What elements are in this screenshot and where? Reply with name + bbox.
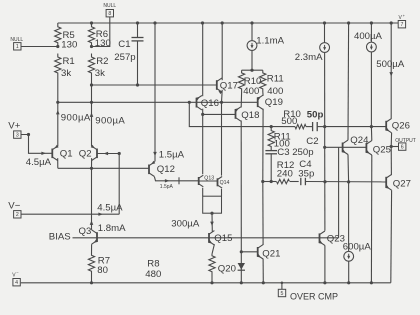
svg-text:1: 1 bbox=[16, 44, 19, 50]
arrow 1.5pA bbox=[160, 179, 174, 190]
pin 3 V+ input bbox=[8, 120, 52, 153]
capacitor C1 bbox=[114, 23, 143, 85]
current arrow 500uA bbox=[376, 59, 405, 77]
wire Q24 collector riser bbox=[347, 23, 350, 140]
wire Q2 emitter riser bbox=[91, 102, 93, 146]
svg-text:80: 80 bbox=[97, 265, 108, 276]
junction node C bbox=[270, 125, 273, 128]
resistor R5 bbox=[55, 23, 78, 50]
pin 5 OVER CMP bbox=[278, 283, 338, 302]
wire Q21 base bbox=[241, 251, 257, 253]
svg-text:480: 480 bbox=[145, 269, 161, 280]
transistor Q17 bbox=[217, 78, 238, 92]
junction Q16 collector bbox=[201, 113, 204, 116]
junction top rail R6 top bbox=[90, 21, 93, 24]
junction Q23 collector node bbox=[323, 180, 326, 183]
svg-text:50p: 50p bbox=[307, 109, 324, 120]
svg-text:130: 130 bbox=[95, 38, 111, 49]
resistor R6 bbox=[88, 23, 110, 49]
wire Q15 emitter to R8 bbox=[212, 244, 214, 254]
transistor Q15 bbox=[208, 231, 232, 245]
transistor Q23 bbox=[319, 231, 345, 245]
wire R1 to node A bbox=[57, 77, 59, 103]
wire BIAS base line bbox=[73, 237, 339, 239]
transistor Q26 bbox=[385, 118, 410, 132]
wire Q19 collector down bbox=[262, 109, 264, 182]
current source 400uA bbox=[354, 23, 383, 127]
svg-text:R8: R8 bbox=[147, 258, 159, 269]
wire R8 to rail bbox=[211, 274, 213, 283]
junction top rail 1.1mA feed bbox=[250, 21, 253, 24]
svg-text:4.5µA: 4.5µA bbox=[26, 157, 52, 168]
wire Q18 collector down bbox=[240, 121, 242, 252]
current arrow 1.5uA bbox=[153, 149, 184, 160]
svg-text:3k: 3k bbox=[95, 68, 105, 79]
junction R8 rail bbox=[210, 281, 213, 284]
svg-text:NULL: NULL bbox=[103, 3, 116, 9]
wire collectors to Q12 base bbox=[58, 167, 149, 169]
node NULL pin 8 bbox=[92, 3, 117, 46]
svg-text:Q21: Q21 bbox=[262, 248, 280, 259]
svg-text:300µA: 300µA bbox=[171, 218, 200, 229]
wire collectors down to Q3 bbox=[91, 168, 93, 228]
svg-text:Q12: Q12 bbox=[157, 164, 175, 175]
wire Q12 collector line bbox=[154, 177, 198, 181]
svg-text:Q18: Q18 bbox=[241, 110, 259, 121]
wire Q1 collector bbox=[57, 158, 59, 168]
wire V- bottom rail bbox=[21, 282, 391, 284]
current arrow 900uA left bbox=[56, 110, 91, 123]
junction R7 rail bbox=[90, 281, 93, 284]
svg-text:R11: R11 bbox=[267, 73, 284, 84]
transistor Q19 bbox=[257, 95, 283, 109]
wire R10 R11 top bar bbox=[242, 69, 263, 71]
resistor R10 500 inline bbox=[281, 109, 308, 129]
junction Q24 emitter node bbox=[347, 180, 350, 183]
wire Q13 Q14 base link bbox=[199, 180, 218, 182]
svg-text:Q3: Q3 bbox=[79, 226, 92, 237]
wire output to Q27 collector bbox=[390, 147, 392, 176]
junction top rail 400uA feed bbox=[370, 21, 373, 24]
wire node C segment bbox=[283, 126, 292, 128]
svg-text:Q19: Q19 bbox=[265, 97, 283, 108]
junction top rail Q24 feed bbox=[347, 21, 350, 24]
wire box to Q15 collector bbox=[211, 213, 213, 231]
svg-text:400: 400 bbox=[267, 86, 283, 97]
arrow into Q1 base bbox=[26, 152, 52, 168]
node NULL pin 1 bbox=[10, 37, 57, 50]
diode Q20 bbox=[218, 252, 245, 283]
arrow into Q2 base bbox=[104, 152, 109, 155]
transistor Q14 bbox=[218, 177, 230, 189]
junction C1 bottom bbox=[136, 83, 139, 86]
transistor Q18 bbox=[235, 107, 260, 121]
junction R6-R2 bbox=[90, 45, 93, 48]
svg-text:4: 4 bbox=[15, 280, 18, 286]
wire V+ top rail bbox=[58, 22, 399, 24]
wire Q14 emitter riser bbox=[221, 102, 223, 175]
svg-text:3k: 3k bbox=[61, 68, 71, 79]
svg-text:257p: 257p bbox=[114, 52, 135, 63]
wire Q23 emitter to rail bbox=[324, 245, 326, 282]
svg-text:Q26: Q26 bbox=[392, 120, 410, 131]
resistor R8 480 bbox=[145, 254, 215, 280]
svg-text:C3 250p: C3 250p bbox=[277, 147, 313, 158]
resistor R1 bbox=[55, 54, 75, 80]
transistor Q1 bbox=[52, 145, 72, 161]
svg-text:7: 7 bbox=[400, 22, 403, 28]
junction output node bbox=[390, 145, 393, 148]
svg-text:Q15: Q15 bbox=[214, 233, 232, 244]
svg-text:Q27: Q27 bbox=[393, 179, 411, 190]
junction R12 line left bbox=[261, 180, 264, 183]
transistor Q24 bbox=[342, 135, 369, 154]
capacitor C2 inline bbox=[306, 109, 324, 147]
wire node down to Q23 bbox=[324, 147, 326, 231]
junction R5-R1 bbox=[56, 45, 59, 48]
pin 7 V' supply bbox=[398, 13, 405, 28]
svg-text:1.8mA: 1.8mA bbox=[98, 223, 126, 234]
junction collectors bbox=[90, 167, 93, 170]
wire Q16 collector continues to Q13 bbox=[202, 114, 204, 174]
wire R1R2 to Q16 Q19 base line bbox=[58, 101, 258, 103]
wire Q1 emitter riser bbox=[57, 102, 59, 146]
svg-text:600µA: 600µA bbox=[343, 241, 372, 252]
transistor Q3 bbox=[79, 226, 98, 244]
junction 600uA rail bbox=[347, 281, 350, 284]
wire Q3 collector diag join bbox=[91, 228, 93, 230]
junction Q20 rail bbox=[240, 281, 243, 284]
wire R10 to Q18 emitter bbox=[240, 92, 242, 108]
junction Q21 emitter rail bbox=[262, 281, 265, 284]
wire Q17 collector drop bbox=[221, 90, 224, 103]
transistor Q13 bbox=[199, 175, 215, 187]
junction top rail Q12 emitter feed bbox=[153, 21, 156, 24]
resistor R2 bbox=[88, 54, 108, 80]
wire Q24 base line bbox=[325, 146, 367, 148]
svg-text:C1: C1 bbox=[118, 39, 130, 50]
transistor Q25 bbox=[366, 141, 391, 156]
wire C4 to Q27 base bbox=[305, 181, 386, 183]
svg-text:V−: V− bbox=[8, 200, 20, 211]
arrow Q17 collector bbox=[218, 91, 222, 95]
capacitor C3 bbox=[265, 147, 313, 182]
resistor R10 400 bbox=[239, 70, 262, 97]
wire Q13 collector to box bbox=[202, 188, 204, 196]
wire Q21 emitter to rail bbox=[262, 259, 264, 283]
junction V+ corner bbox=[27, 133, 30, 136]
svg-text:Q20: Q20 bbox=[218, 263, 236, 274]
junction top rail Q16 emitter feed bbox=[201, 21, 204, 24]
junction C1 line left bbox=[90, 83, 93, 86]
current source 1.1mA bbox=[247, 23, 285, 70]
svg-text:500: 500 bbox=[281, 116, 297, 127]
junction pin5 rail bbox=[281, 282, 284, 285]
junction 400uA node bbox=[370, 125, 373, 128]
wire 1.5uA from rail bbox=[154, 23, 156, 161]
wire Q27 emitter to rail corner bbox=[390, 190, 393, 283]
wire Q2 collector to junction bbox=[91, 158, 93, 168]
wire Q17 emitter riser bbox=[221, 23, 223, 80]
junction Q23 emitter rail bbox=[323, 281, 326, 284]
svg-text:2: 2 bbox=[16, 212, 19, 218]
svg-text:5: 5 bbox=[281, 291, 284, 297]
arrow on V- lead bbox=[97, 203, 123, 216]
current arrow 300uA bbox=[171, 218, 214, 229]
wire Q2 base riser bbox=[97, 154, 119, 215]
wire node B drop bbox=[189, 102, 283, 126]
svg-text:Q2: Q2 bbox=[79, 148, 92, 159]
wire Q26 emitter to output bbox=[390, 133, 392, 147]
svg-text:2.3mA: 2.3mA bbox=[295, 52, 323, 63]
svg-text:130: 130 bbox=[61, 39, 77, 50]
wire R12 segment bbox=[263, 181, 277, 183]
tick on Q12 collector line bbox=[178, 177, 180, 184]
svg-text:35p: 35p bbox=[298, 169, 314, 180]
junction Q21 base node bbox=[240, 250, 243, 253]
junction node A bbox=[56, 101, 93, 104]
wire Q12 emitter join bbox=[153, 160, 156, 163]
node BIAS label bbox=[49, 232, 71, 243]
junction 1.1mA feed bbox=[250, 69, 253, 72]
svg-text:400µA: 400µA bbox=[354, 31, 383, 42]
wire 400uA node to Q25 collector bbox=[370, 127, 372, 141]
svg-text:240: 240 bbox=[277, 169, 293, 180]
current arrow 900uA right bbox=[90, 113, 126, 127]
wire C1 line to Q17 base bbox=[92, 84, 217, 86]
junction box bottom bbox=[210, 212, 213, 215]
svg-text:400: 400 bbox=[243, 86, 259, 97]
junction Q25 emitter rail bbox=[370, 281, 373, 284]
pin 4 V- supply bbox=[12, 270, 20, 286]
svg-text:Q25: Q25 bbox=[373, 144, 391, 155]
junction Q16 base line bbox=[188, 101, 191, 104]
svg-text:Q14: Q14 bbox=[220, 180, 230, 186]
wire Q21 collector riser bbox=[262, 182, 264, 246]
svg-text:3: 3 bbox=[16, 133, 19, 139]
current source 600uA bbox=[343, 182, 372, 283]
pin 6 OUTPUT bbox=[391, 138, 416, 151]
junction C3 bottom bbox=[270, 180, 273, 183]
svg-text:Q13: Q13 bbox=[204, 175, 214, 181]
junction top rail 2.3mA feed bbox=[323, 21, 326, 24]
wire 2.3mA node down bbox=[324, 127, 326, 148]
wire R2 down bbox=[91, 77, 93, 103]
svg-text:500µA: 500µA bbox=[376, 59, 405, 70]
transistor Q27 bbox=[385, 174, 411, 190]
svg-text:R1: R1 bbox=[63, 56, 75, 67]
svg-text:Q16: Q16 bbox=[201, 98, 219, 109]
transistor Q12 bbox=[149, 161, 175, 177]
junction top rail 500uA feed bbox=[390, 21, 393, 24]
svg-text:NULL: NULL bbox=[10, 37, 23, 43]
junction Q17 collector node bbox=[220, 101, 223, 104]
pin 2 V- input bbox=[8, 200, 119, 218]
wire Q3 emitter to R7 bbox=[91, 244, 93, 253]
wire rail to Q16 emitter bbox=[202, 23, 204, 96]
svg-text:C2: C2 bbox=[306, 136, 318, 147]
junction Q2 base riser top bbox=[118, 152, 121, 155]
transistor Q2 bbox=[79, 145, 97, 161]
wire R11 to Q19 emitter bbox=[262, 92, 264, 96]
wire Q16 collector down bbox=[202, 109, 204, 115]
junction output driver node bbox=[323, 146, 326, 149]
transistor Q16 bbox=[196, 96, 219, 110]
resistor R11 400 bbox=[260, 70, 284, 97]
transistor Q21 bbox=[257, 245, 281, 260]
svg-text:900µA: 900µA bbox=[61, 112, 91, 123]
wire 500uA drop bbox=[390, 23, 392, 118]
svg-text:OVER CMP: OVER CMP bbox=[290, 291, 338, 301]
junction C2 node bbox=[323, 125, 326, 128]
svg-text:V+: V+ bbox=[8, 120, 20, 131]
svg-text:6: 6 bbox=[401, 145, 404, 151]
resistor R12 240 bbox=[277, 160, 295, 184]
wire Q16 collector to Q18 base bbox=[203, 113, 236, 115]
junction top rail Q17 emitter feed bbox=[221, 21, 224, 24]
wire Q14 collector to box bbox=[221, 189, 223, 196]
wire Q24 emitter down bbox=[347, 155, 350, 183]
svg-text:8: 8 bbox=[108, 11, 111, 17]
wire clamp riser bbox=[338, 147, 340, 238]
svg-text:1.5pA: 1.5pA bbox=[160, 184, 174, 190]
junction top rail C1 top bbox=[136, 21, 139, 24]
current arrow 1.8mA bbox=[90, 221, 126, 235]
wire Q25 emitter to rail bbox=[370, 155, 372, 283]
svg-text:R2: R2 bbox=[96, 56, 108, 67]
svg-text:1.5µA: 1.5µA bbox=[159, 149, 185, 160]
resistor R7 bbox=[88, 254, 110, 276]
component box bbox=[203, 196, 222, 213]
resistor R11 100 bbox=[268, 127, 291, 150]
svg-text:1.1mA: 1.1mA bbox=[256, 36, 284, 47]
wire R7 to rail bbox=[91, 273, 93, 283]
wire R12 to C4 bbox=[290, 181, 299, 183]
capacitor C4 35p bbox=[298, 159, 314, 185]
svg-text:Q1: Q1 bbox=[60, 148, 73, 159]
current source 2.3mA bbox=[295, 23, 330, 127]
svg-text:900µA: 900µA bbox=[95, 116, 125, 127]
wire C2 to Q26 base bbox=[325, 126, 387, 128]
svg-text:BIAS: BIAS bbox=[49, 232, 71, 243]
